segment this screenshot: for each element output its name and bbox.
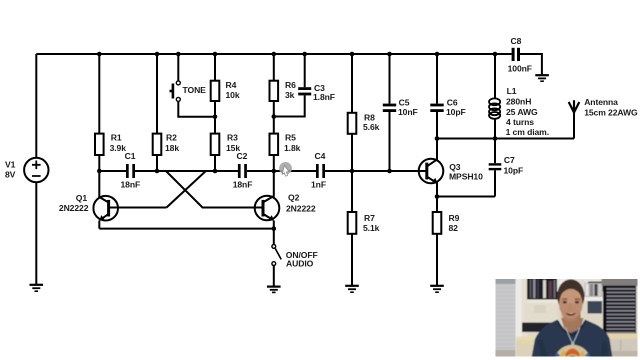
svg-text:AUDIO: AUDIO	[286, 259, 314, 269]
capacitor C3	[298, 87, 311, 95]
wire C4 to Q3 base	[325, 170, 427, 172]
capacitor C1	[126, 164, 135, 178]
wire R7 bottom to ground	[351, 234, 353, 285]
svg-text:82: 82	[449, 223, 459, 233]
svg-text:15cm 22AWG: 15cm 22AWG	[584, 108, 638, 118]
svg-text:Q1: Q1	[76, 193, 88, 203]
junction rail TONE	[176, 52, 181, 57]
svg-text:25 AWG: 25 AWG	[506, 107, 538, 117]
capacitor C7	[489, 163, 502, 170]
capacitor C6	[430, 104, 443, 112]
wire C7 bottom lead	[494, 170, 496, 196]
wire R7 top lead	[351, 171, 353, 212]
svg-text:L1: L1	[507, 86, 517, 96]
node TONE R4 R3	[213, 115, 218, 120]
capacitor C8	[512, 48, 520, 61]
svg-text:10pF: 10pF	[504, 165, 524, 175]
ground R9	[430, 286, 444, 292]
svg-text:R2: R2	[166, 133, 177, 143]
node Q3 emitter R9	[435, 194, 440, 199]
person	[561, 318, 584, 333]
wire C3 bottom to R6 junction	[274, 95, 305, 116]
wire C5 bottom lead	[389, 112, 391, 171]
mouse pointer highlight	[279, 162, 292, 176]
svg-text:280nH: 280nH	[506, 96, 531, 106]
voltage source V1	[24, 158, 48, 182]
resistor R3	[211, 134, 220, 155]
ground R7	[345, 286, 359, 292]
wire Q2 emitter down	[273, 221, 275, 229]
capacitor C2	[238, 164, 247, 178]
svg-text:R8: R8	[364, 113, 375, 123]
svg-text:C4: C4	[315, 151, 326, 161]
wire node row C1 left	[99, 170, 126, 172]
svg-text:R5: R5	[285, 133, 296, 143]
wire C3 top lead	[304, 54, 306, 87]
transistor Q2	[255, 196, 280, 221]
wire cross diagonal R2 to Q2 base	[157, 171, 263, 208]
wire V1 bottom to ground	[35, 182, 37, 284]
svg-text:C1: C1	[125, 151, 136, 161]
junction rail C3	[302, 52, 307, 57]
node R3 C2	[213, 169, 218, 174]
svg-text:8V: 8V	[5, 169, 16, 179]
resistor R5	[270, 134, 279, 155]
wire R2 top lead	[156, 54, 158, 134]
webcam video inset	[494, 277, 640, 360]
wire R2 bottom lead	[156, 155, 158, 171]
wire Q3 emitter down	[436, 183, 438, 197]
svg-text:2N2222: 2N2222	[286, 204, 316, 214]
node emitters switch	[272, 226, 277, 231]
junction rail C5	[387, 52, 392, 57]
wire emitter bottom rail	[99, 228, 273, 230]
junction rail R6	[272, 52, 277, 57]
wire C6 bottom lead	[436, 112, 438, 139]
svg-text:10nF: 10nF	[398, 107, 418, 117]
resistor R7	[348, 212, 357, 234]
node R6 C3 R5	[272, 114, 277, 119]
resistor R2	[153, 134, 162, 155]
svg-text:R1: R1	[111, 133, 122, 143]
wire antenna lead	[573, 112, 575, 139]
svg-text:5.1k: 5.1k	[363, 223, 380, 233]
node R8 R7	[350, 169, 355, 174]
switch ON/OFF AUDIO	[272, 245, 281, 266]
junction rail R4	[213, 52, 218, 57]
wire Q1 collector	[99, 171, 108, 202]
node C5 audio	[387, 169, 392, 174]
wire TONE top lead	[177, 54, 179, 81]
svg-text:1.8k: 1.8k	[284, 143, 301, 153]
transistor Q3	[419, 159, 444, 184]
svg-text:R7: R7	[364, 213, 375, 223]
wire R3 top lead	[214, 117, 216, 134]
node Q3 collector C6	[435, 136, 440, 141]
wire C7 top lead	[494, 139, 496, 164]
wire Q1 emitter down	[98, 221, 100, 229]
wire V1 branch top	[35, 54, 37, 158]
wire C5 top lead	[389, 54, 391, 104]
junction rail R8	[350, 52, 355, 57]
svg-text:3k: 3k	[285, 90, 295, 100]
wire collector node to antenna	[437, 138, 574, 140]
wire C2 to C4	[247, 170, 316, 172]
wire R8 top lead	[351, 54, 353, 113]
svg-text:C5: C5	[399, 97, 410, 107]
ground switch	[267, 287, 281, 293]
inductor L1	[489, 98, 500, 118]
svg-text:1 cm diam.: 1 cm diam.	[506, 127, 549, 137]
resistor R6	[270, 81, 279, 101]
svg-text:18nF: 18nF	[233, 180, 253, 190]
wire C8 right to ground	[520, 54, 542, 75]
svg-text:1nF: 1nF	[311, 180, 326, 190]
junction rail R1	[97, 52, 102, 57]
svg-text:C8: C8	[511, 36, 522, 46]
svg-text:10pF: 10pF	[446, 107, 466, 117]
pushbutton TONE	[170, 81, 181, 102]
wire R9 bottom to ground	[436, 234, 438, 285]
svg-text:MPSH10: MPSH10	[449, 172, 483, 182]
svg-text:18k: 18k	[165, 143, 179, 153]
svg-text:R6: R6	[285, 80, 296, 90]
resistor R9	[433, 212, 442, 234]
transistor Q1	[93, 196, 118, 221]
wire R8 bottom lead	[351, 134, 353, 171]
resistor R1	[95, 134, 104, 155]
wire TONE bottom to R4 junction	[178, 101, 215, 116]
svg-text:Q2: Q2	[288, 193, 300, 203]
resistor R8	[348, 113, 357, 134]
wire cross diagonal R3 to Q1 base	[167, 171, 216, 208]
svg-text:Q3: Q3	[449, 162, 461, 172]
resistor R4	[211, 81, 220, 101]
node R2 C1	[155, 169, 160, 174]
wire Q3 emitter to C7 bottom	[437, 196, 495, 198]
junction rail C6	[435, 52, 440, 57]
svg-text:R9: R9	[449, 213, 460, 223]
svg-text:100nF: 100nF	[508, 64, 532, 74]
node Q2 collector R5	[272, 169, 277, 174]
svg-text:2N2222: 2N2222	[59, 203, 89, 213]
wire R9 top lead	[436, 197, 438, 213]
ground C8	[535, 75, 549, 81]
svg-text:4 turns: 4 turns	[506, 117, 534, 127]
wire R4 bottom lead	[214, 101, 216, 117]
wire Q1 base lead	[109, 207, 167, 209]
wire R4 top lead	[214, 54, 216, 81]
svg-text:Antenna: Antenna	[584, 97, 618, 107]
wire switch bottom to ground	[273, 266, 275, 287]
junction rail L1	[493, 52, 498, 57]
svg-text:V1: V1	[5, 160, 16, 170]
node L1 C7	[493, 136, 498, 141]
ground V1	[30, 285, 44, 291]
svg-text:5.6k: 5.6k	[363, 122, 380, 132]
svg-text:10k: 10k	[226, 90, 240, 100]
wire R5 top lead	[273, 117, 275, 135]
wire C6 top lead	[436, 54, 438, 104]
antenna symbol	[569, 100, 580, 112]
svg-text:R4: R4	[226, 80, 237, 90]
wire Q2 collector	[263, 171, 274, 202]
wire R3 bottom lead	[214, 155, 216, 171]
wire R6 top lead	[273, 54, 275, 81]
wire switch top lead	[273, 229, 275, 245]
node Q1 collector C1	[97, 169, 102, 174]
capacitor C5	[383, 104, 396, 112]
junction rail R2	[155, 52, 160, 57]
svg-text:R3: R3	[227, 133, 238, 143]
wire R1 bottom lead	[98, 155, 100, 171]
wire L1 top lead	[494, 54, 496, 99]
svg-text:TONE: TONE	[183, 85, 207, 95]
svg-text:C2: C2	[237, 151, 248, 161]
wire top supply rail	[36, 53, 511, 55]
capacitor C4	[316, 164, 325, 178]
wire R1 top lead	[98, 54, 100, 134]
wire L1 bottom lead	[494, 119, 496, 139]
wire Q3 collector	[427, 139, 437, 167]
wire R5 bottom lead	[273, 155, 275, 171]
wire R6 bottom lead	[273, 101, 275, 117]
svg-text:C7: C7	[504, 155, 515, 165]
svg-text:18nF: 18nF	[121, 180, 141, 190]
shirt logo	[554, 345, 592, 360]
svg-text:C6: C6	[447, 97, 458, 107]
svg-text:1.8nF: 1.8nF	[313, 92, 335, 102]
wire C1 to C2	[135, 170, 238, 172]
